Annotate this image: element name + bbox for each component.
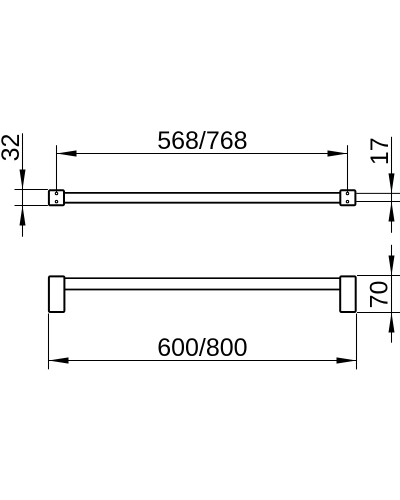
right wall bracket (top view) [340,190,355,205]
dimension 600/800: right arrowhead [337,357,357,363]
left post (front view) [49,276,65,312]
dimension 600/800: dimension line [49,360,357,362]
screw hole top-right [346,192,348,194]
dimension 70: bottom extension line [357,312,400,314]
left wall bracket (top view) [49,190,64,205]
screw hole top-left [55,192,57,194]
dimension 70: upper arrowhead [389,256,395,276]
wire: bar bottom edge (top view) [65,202,340,204]
wire: bar top edge (front view) [65,277,340,279]
dimension 600/800: left extension line [48,314,50,370]
screw hole bottom-right [346,200,348,202]
dimension 600/800: right extension line [356,314,358,370]
wire: bar top edge (top view) [65,192,340,194]
dimension 17: lower arrowhead [389,202,395,222]
dimension 568/768: right extension line [347,145,349,192]
dimension 70: top extension line [357,275,400,277]
svg-text:32: 32 [0,134,25,162]
dimension 32: upper arrowhead [20,170,26,190]
wire: bar bottom edge (front view) [65,289,340,291]
dimension 17: upper arrowhead [389,173,395,193]
svg-text:600/800: 600/800 [157,334,247,362]
dimension 32: top extension line [15,189,48,191]
dimension 32: dimension line [22,133,24,236]
right post (front view) [340,276,356,312]
dimension 568/768: left arrowhead [57,150,77,156]
svg-text:70: 70 [365,281,393,309]
dimension 70: lower arrowhead [389,313,395,333]
dimension 32: lower arrowhead [20,206,26,226]
dimension 17: dimension line [391,137,393,233]
dimension 600/800: left arrowhead [49,357,69,363]
svg-text:568/768: 568/768 [157,127,247,155]
dimension 17: top extension line [356,192,400,194]
dimension 70: dimension line [391,245,393,343]
svg-text:17: 17 [366,137,394,165]
dimension 568/768: left extension line [56,145,58,192]
dimension 568/768: dimension line [57,153,348,155]
dimension 32: bottom extension line [15,205,48,207]
dimension 568/768: right arrowhead [328,150,348,156]
screw hole bottom-left [55,200,57,202]
dimension 17: bottom extension line [356,201,400,203]
